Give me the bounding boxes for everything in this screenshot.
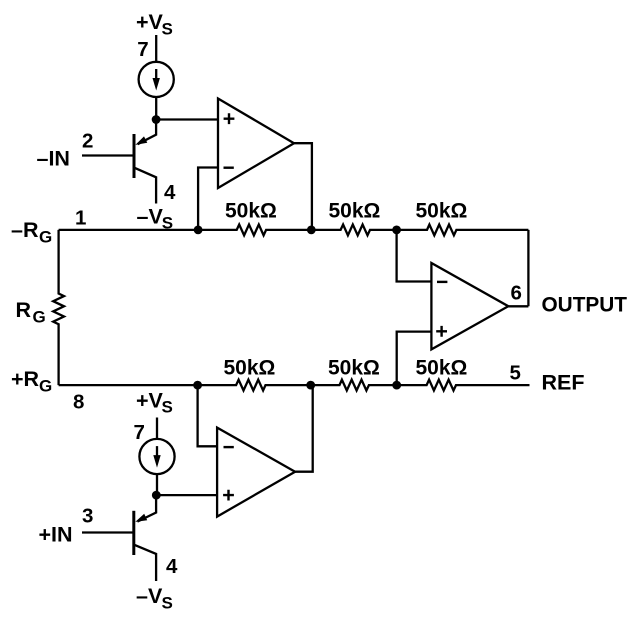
- wire A2 output to node N6: [295, 385, 313, 472]
- wire +VS to current source I1: [155, 35, 157, 62]
- svg-text:2: 2: [82, 130, 93, 153]
- wire N8 to A2 noninverting input: [156, 494, 217, 496]
- svg-text:–R: –R: [11, 218, 39, 242]
- node +VS (bottom) label: [136, 388, 173, 416]
- wire A2 inverting input feedback to node N5: [198, 385, 218, 446]
- node -VS (bottom) label: [136, 584, 173, 613]
- wire I1 to node N1: [155, 97, 157, 120]
- current source I1: [139, 62, 174, 97]
- transistor Q2 emitter: [137, 495, 156, 521]
- op-amp A1 minus symbol: [224, 166, 234, 168]
- op-amp A1: [218, 99, 294, 189]
- svg-text:4: 4: [166, 555, 178, 578]
- svg-text:–IN: –IN: [37, 147, 70, 171]
- svg-text:–V: –V: [137, 204, 164, 228]
- wire N1 to A1 noninverting input: [156, 118, 218, 120]
- transistor Q1 base bar: [133, 134, 136, 178]
- resistor RG label: [16, 298, 46, 327]
- svg-text:+V: +V: [136, 10, 164, 34]
- svg-text:S: S: [162, 594, 173, 613]
- svg-text:50kΩ: 50kΩ: [329, 200, 381, 223]
- node N8 junction dot: [152, 491, 161, 500]
- wire top rail with resistors R1 R2 R3: [59, 225, 529, 236]
- op-amp A1 plus symbol: [224, 113, 235, 124]
- svg-text:G: G: [33, 308, 46, 327]
- svg-text:8: 8: [73, 391, 84, 414]
- op-amp A3 plus symbol: [436, 326, 447, 337]
- svg-text:50kΩ: 50kΩ: [225, 200, 277, 223]
- wire +VS to current source I2: [156, 418, 158, 439]
- wire bottom rail with resistors R4 R5 R6: [59, 380, 530, 391]
- transistor Q1 emitter: [138, 120, 157, 145]
- svg-text:+R: +R: [11, 367, 40, 391]
- transistor Q2 emitter arrowhead: [135, 514, 147, 522]
- node N4 junction dot: [392, 226, 401, 235]
- current source I2: [139, 439, 174, 474]
- svg-text:7: 7: [134, 421, 145, 444]
- wire +IN lead to Q2 base: [82, 531, 134, 533]
- transistor Q2 collector: [135, 545, 157, 581]
- svg-text:S: S: [162, 398, 173, 417]
- svg-text:OUTPUT: OUTPUT: [542, 293, 628, 316]
- svg-text:1: 1: [75, 207, 86, 230]
- wire A1 inverting input feedback: [198, 168, 218, 230]
- wire A1 output to top rail: [294, 143, 312, 230]
- svg-text:50kΩ: 50kΩ: [224, 357, 276, 380]
- wire -IN lead to Q1 base: [82, 154, 134, 156]
- svg-text:S: S: [162, 20, 173, 39]
- svg-text:R: R: [16, 298, 32, 322]
- svg-text:3: 3: [82, 505, 93, 528]
- svg-text:6: 6: [511, 281, 522, 304]
- node -VS (top) label: [137, 204, 174, 232]
- wire A3 output: [508, 305, 528, 307]
- op-amp A3: [431, 263, 508, 349]
- node N3 junction dot: [307, 226, 316, 235]
- svg-text:G: G: [39, 377, 52, 396]
- node -RG label: [11, 218, 52, 247]
- svg-text:7: 7: [137, 38, 148, 61]
- node +VS (top) label: [136, 10, 173, 39]
- wire top rail to A3 output node: [527, 230, 529, 306]
- op-amp A2 plus symbol: [223, 490, 234, 501]
- svg-text:–V: –V: [136, 584, 163, 608]
- transistor Q2 base bar: [132, 511, 135, 555]
- node N1 junction dot: [152, 115, 161, 124]
- wire A3 noninverting input to node N7: [397, 332, 432, 386]
- node N2 junction dot: [194, 226, 203, 235]
- node N7 junction dot: [392, 381, 401, 390]
- svg-text:50kΩ: 50kΩ: [416, 357, 468, 380]
- op-amp A2: [217, 428, 295, 517]
- resistor RG (gain): [53, 230, 64, 385]
- transistor Q1 collector: [135, 168, 156, 204]
- svg-text:REF: REF: [542, 371, 585, 395]
- svg-text:4: 4: [164, 181, 176, 204]
- wire I2 to node N8: [156, 474, 158, 495]
- node +RG label: [11, 367, 52, 396]
- op-amp A2 minus symbol: [224, 446, 234, 448]
- node N6 junction dot: [306, 381, 315, 390]
- op-amp A3 minus symbol: [437, 281, 447, 283]
- wire A3 inverting input from node N4: [397, 230, 432, 282]
- svg-text:50kΩ: 50kΩ: [416, 200, 468, 223]
- svg-text:5: 5: [510, 361, 521, 384]
- svg-text:+V: +V: [136, 388, 164, 412]
- transistor Q1 emitter arrowhead: [135, 136, 147, 145]
- svg-text:G: G: [39, 228, 52, 247]
- svg-text:50kΩ: 50kΩ: [328, 357, 380, 380]
- svg-text:+IN: +IN: [39, 523, 73, 547]
- node N5 junction dot: [193, 381, 202, 390]
